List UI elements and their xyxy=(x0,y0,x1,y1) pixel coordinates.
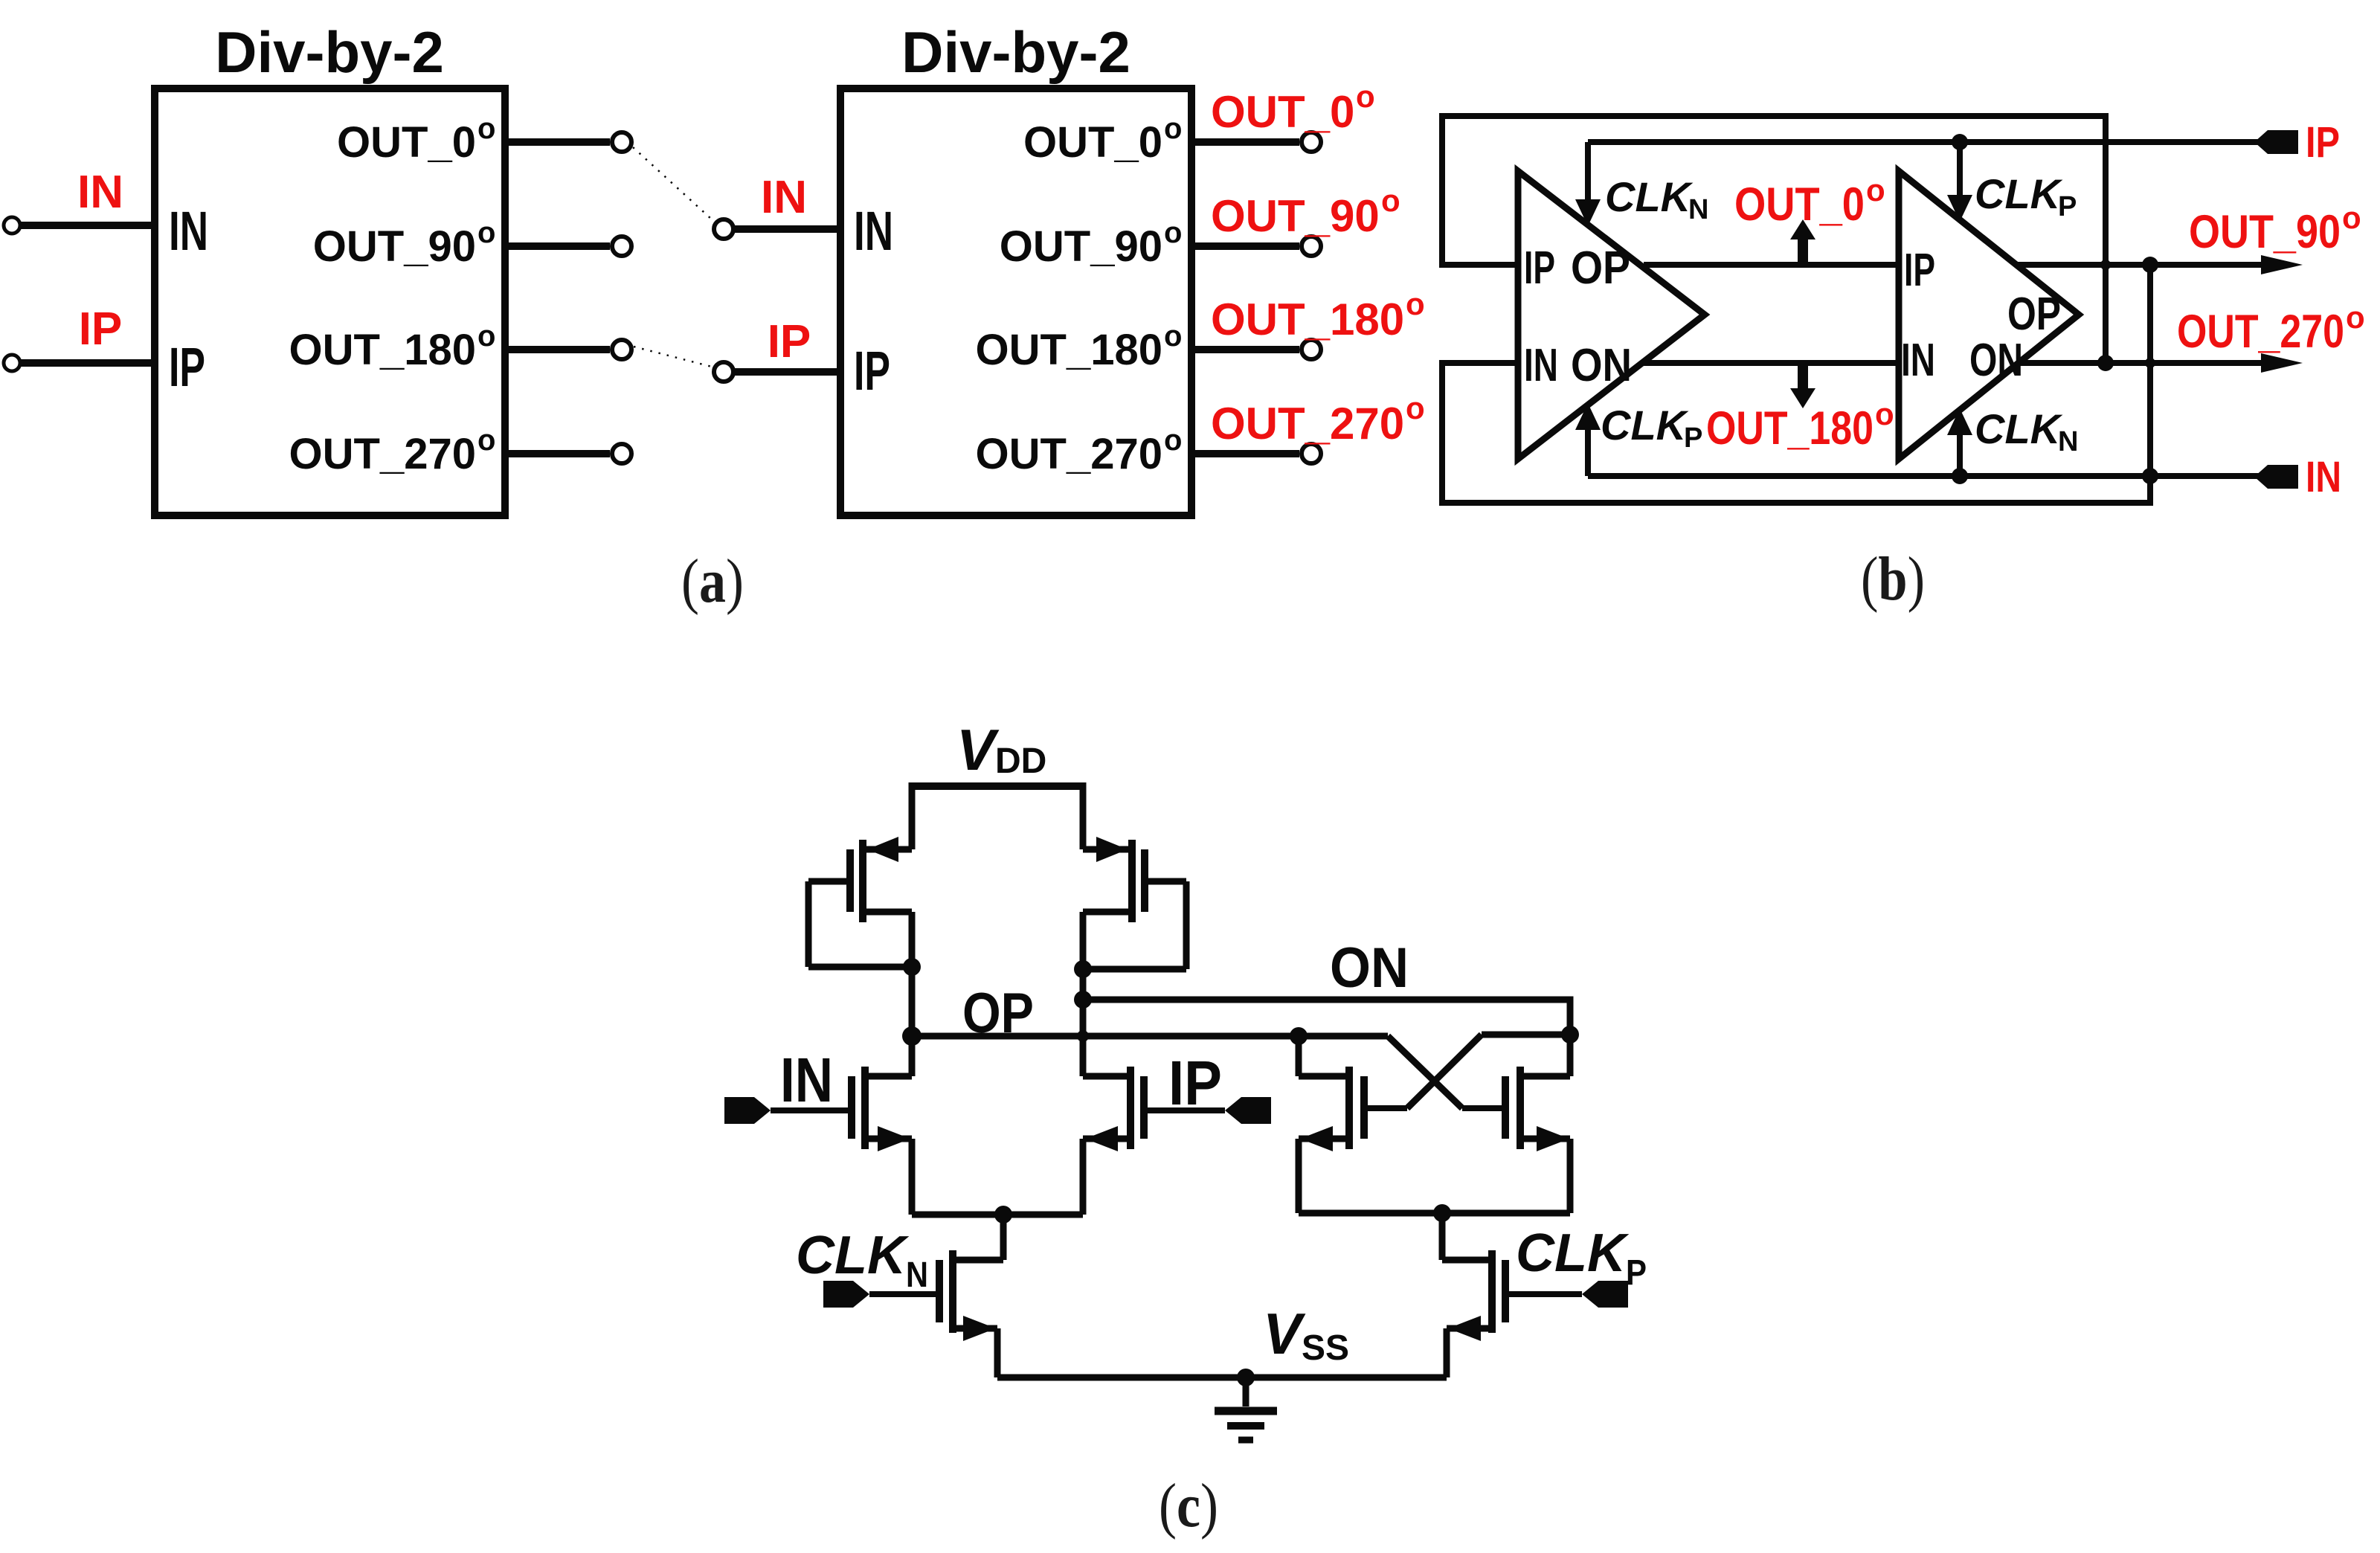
wire VDD rail xyxy=(912,782,1083,790)
svg-text:CLK: CLK xyxy=(1601,402,1689,448)
wire U2 OUT_270 xyxy=(1191,450,1299,457)
junction dot OP at M1 drain xyxy=(902,1026,922,1046)
svg-text:(c): (c) xyxy=(1159,1471,1218,1540)
switch S2 pole circle xyxy=(714,362,733,382)
divider block U2 (Div-by-2 #2) xyxy=(840,89,1191,515)
transistor M5 NMOS cross-coupled left xyxy=(1299,1036,1407,1213)
svg-text:IN: IN xyxy=(1524,340,1558,391)
terminal flag IN (c) xyxy=(724,1097,771,1124)
wire ON2 output (OUT_270) xyxy=(2020,360,2271,366)
svg-text:CLK: CLK xyxy=(1516,1224,1630,1283)
svg-text:ON: ON xyxy=(1571,340,1632,391)
junction dot M2 gate-drain xyxy=(1074,960,1092,978)
block arrow OUT_0 (up) xyxy=(1790,219,1815,265)
svg-text:IP: IP xyxy=(1904,245,1935,296)
svg-text:(a): (a) xyxy=(681,547,744,616)
svg-text:OUT_0: OUT_0 xyxy=(1211,87,1354,137)
svg-text:OUT_0: OUT_0 xyxy=(337,118,476,167)
junction dot OP crossing M2 leg xyxy=(1077,1030,1089,1042)
junction dot feedback line on IN line xyxy=(2142,468,2158,484)
svg-text:o: o xyxy=(1875,396,1894,431)
svg-text:o: o xyxy=(477,424,495,457)
svg-text:OP: OP xyxy=(2007,289,2061,340)
transistor M6 NMOS cross-coupled right xyxy=(1462,1035,1570,1213)
svg-text:o: o xyxy=(477,216,495,249)
wire CLK_N stub into L1 top xyxy=(1585,142,1591,202)
svg-text:o: o xyxy=(477,112,495,145)
svg-text:IN: IN xyxy=(77,167,123,218)
switch S1 dashed throw from OUT_0 to IN pole xyxy=(633,147,712,219)
svg-text:V: V xyxy=(956,717,1000,782)
wire feedback OP2 to IN1 (bottom outer path) xyxy=(1442,265,2150,503)
svg-text:IP: IP xyxy=(854,340,890,402)
svg-text:CLK: CLK xyxy=(1975,405,2063,452)
svg-text:DD: DD xyxy=(995,742,1046,781)
svg-text:V: V xyxy=(1263,1301,1306,1366)
wire VSS rail xyxy=(997,1374,1447,1381)
switch contact circle U1 OUT_180 xyxy=(612,340,631,359)
svg-text:OUT_270: OUT_270 xyxy=(2177,306,2344,358)
svg-text:P: P xyxy=(1626,1253,1647,1293)
wire ON1 to IN2 xyxy=(1644,360,1899,366)
transistor M4 NMOS input IP xyxy=(1083,1067,1225,1215)
junction dot VSS ground tap xyxy=(1237,1369,1255,1386)
transistor M2 PMOS diode-connected right xyxy=(1083,782,1186,1076)
svg-text:P: P xyxy=(2058,191,2077,222)
wire node OP xyxy=(912,1033,1388,1040)
latch L2 triangle xyxy=(1899,171,2079,459)
junction dot crossing ON2/OP2-vert xyxy=(2145,358,2155,368)
junction dot M1 gate-drain xyxy=(903,958,921,976)
svg-text:N: N xyxy=(1688,194,1708,225)
svg-text:OUT_90: OUT_90 xyxy=(2189,206,2341,258)
svg-text:OUT_90: OUT_90 xyxy=(313,222,476,271)
wire U1 OUT_0 xyxy=(505,138,610,146)
transistor M1 PMOS diode-connected left xyxy=(808,782,912,1036)
svg-text:OUT_180: OUT_180 xyxy=(1211,295,1404,344)
junction dot CLK_P tap on IP line xyxy=(1952,134,1968,150)
junction dot ON at M5 drain xyxy=(1561,1026,1579,1044)
terminal circle U2 OUT_180 xyxy=(1302,340,1321,359)
svg-text:IN: IN xyxy=(780,1045,833,1115)
wire U1 OUT_270 xyxy=(505,450,610,457)
terminal arrowhead OUT_270 xyxy=(2261,353,2303,373)
terminal circle IN (left) xyxy=(4,217,20,234)
svg-text:OUT_90: OUT_90 xyxy=(1000,222,1162,271)
svg-text:o: o xyxy=(2346,300,2365,335)
svg-text:OUT_270: OUT_270 xyxy=(976,430,1162,478)
transistor M7 NMOS tail CLK_N xyxy=(869,1215,1003,1377)
switch S2 dashed throw from OUT_180 to IP pole xyxy=(634,347,712,367)
junction dot ON tap at M2 drain xyxy=(1074,991,1092,1009)
switch contact circle U1 OUT_90 xyxy=(612,237,631,256)
svg-text:OUT_90: OUT_90 xyxy=(1211,191,1380,241)
terminal circle IP (left) xyxy=(4,355,20,371)
svg-text:N: N xyxy=(2058,426,2078,457)
wire IN clock line xyxy=(1588,473,2262,479)
svg-text:IP: IP xyxy=(1524,242,1555,294)
svg-text:(b): (b) xyxy=(1861,544,1925,614)
wire IN input to U1 xyxy=(20,222,155,229)
divider block U1 (Div-by-2 #1) xyxy=(155,89,505,515)
svg-text:IP: IP xyxy=(768,316,811,367)
switch contact circle U1 OUT_270 xyxy=(612,444,631,463)
svg-text:o: o xyxy=(1356,79,1375,114)
terminal flag CLK_P (c) xyxy=(1582,1281,1628,1308)
junction dot crossing OP2/ON2-vert xyxy=(2100,260,2111,270)
wire cross-couple diagonal ON to M5 gate xyxy=(1407,1035,1482,1108)
latch L1 triangle xyxy=(1518,171,1705,459)
svg-text:OUT_0: OUT_0 xyxy=(1734,179,1865,231)
svg-text:o: o xyxy=(1406,286,1425,321)
block arrow OUT_180 (down) xyxy=(1790,363,1815,408)
svg-text:IN: IN xyxy=(854,200,893,262)
terminal flag IN (b) xyxy=(2254,465,2298,489)
svg-text:o: o xyxy=(1164,424,1182,457)
wire CLK_P stub into L2 top xyxy=(1957,142,1963,198)
terminal flag IP (c) xyxy=(1225,1097,1271,1124)
svg-text:OUT_270: OUT_270 xyxy=(1211,399,1404,448)
wire S2 pole to U2 IP xyxy=(733,368,840,376)
terminal circle U2 OUT_270 xyxy=(1302,444,1321,463)
svg-text:o: o xyxy=(1381,183,1400,218)
switch S1 pole circle xyxy=(714,219,733,239)
junction dot OP2 feedback tap xyxy=(2142,257,2158,273)
svg-text:IP: IP xyxy=(2306,118,2340,167)
svg-text:o: o xyxy=(1164,112,1182,145)
arrowhead CLK_P into L1 bottom xyxy=(1575,403,1601,430)
wire IP clock line xyxy=(1588,139,2262,145)
junction dot OP at M4 drain xyxy=(1290,1027,1308,1045)
svg-text:P: P xyxy=(1684,422,1702,454)
wire OP1 to IP2 xyxy=(1644,262,1899,268)
arrowhead CLK_N into L1 top xyxy=(1575,199,1601,226)
wire U2 OUT_0 xyxy=(1191,138,1299,146)
svg-text:OUT_180: OUT_180 xyxy=(976,326,1162,374)
svg-text:IN: IN xyxy=(1901,335,1935,386)
svg-text:ON: ON xyxy=(1330,936,1409,1000)
svg-text:ON: ON xyxy=(1969,335,2023,386)
wire CLK_P stub into L1 bottom xyxy=(1585,427,1591,476)
transistor M3 NMOS input IN xyxy=(771,1036,912,1215)
wire node ON xyxy=(1083,1000,1570,1035)
svg-text:IN: IN xyxy=(169,200,208,262)
junction dot right tail node xyxy=(1433,1204,1451,1222)
svg-text:OP: OP xyxy=(962,982,1034,1045)
ground symbol xyxy=(1215,1377,1277,1440)
svg-text:OUT_0: OUT_0 xyxy=(1023,118,1162,167)
svg-text:o: o xyxy=(1866,173,1885,208)
wire common source left pair xyxy=(912,1212,1083,1218)
junction dot ON2 feedback tap xyxy=(2097,355,2114,371)
wire OP2 output (OUT_90) xyxy=(2016,262,2271,268)
svg-text:o: o xyxy=(477,320,495,353)
switch contact circle U1 OUT_0 xyxy=(612,132,631,152)
arrowhead CLK_P into L2 top xyxy=(1947,195,1972,222)
terminal circle U2 OUT_0 xyxy=(1302,132,1321,152)
wire U2 OUT_90 xyxy=(1191,242,1299,250)
junction dot CLK_N tap on IN line xyxy=(1952,468,1968,484)
svg-text:OP: OP xyxy=(1571,242,1630,294)
svg-text:Div-by-2: Div-by-2 xyxy=(901,19,1130,85)
svg-text:o: o xyxy=(1164,216,1182,249)
svg-text:OUT_180: OUT_180 xyxy=(289,326,476,374)
svg-text:CLK: CLK xyxy=(1605,173,1694,220)
wire cross-couple stub ON xyxy=(1482,1032,1570,1038)
wire U1 OUT_90 xyxy=(505,242,610,250)
svg-text:IN: IN xyxy=(2306,453,2341,501)
wire cross-couple diagonal OP to M6 gate xyxy=(1388,1036,1462,1108)
svg-text:Div-by-2: Div-by-2 xyxy=(215,19,444,85)
terminal arrowhead OUT_90 xyxy=(2261,255,2303,274)
svg-text:IP: IP xyxy=(169,336,205,398)
svg-text:CLK: CLK xyxy=(1975,170,2063,217)
wire feedback ON2 to IP1 (top outer path) xyxy=(1442,116,2106,363)
terminal flag IP (b) xyxy=(2254,130,2298,154)
svg-text:IP: IP xyxy=(79,303,123,355)
svg-text:CLK: CLK xyxy=(796,1226,910,1285)
terminal flag CLK_N (c) xyxy=(823,1281,869,1308)
terminal circle U2 OUT_90 xyxy=(1302,237,1321,256)
svg-text:OUT_180: OUT_180 xyxy=(1706,402,1874,454)
svg-text:o: o xyxy=(1164,320,1182,353)
wire IP input to U1 xyxy=(20,359,155,367)
wire U2 OUT_180 xyxy=(1191,346,1299,353)
arrowhead CLK_N into L2 bottom xyxy=(1947,408,1972,435)
wire common source right pair xyxy=(1299,1210,1570,1217)
svg-text:IN: IN xyxy=(761,172,807,223)
svg-text:OUT_270: OUT_270 xyxy=(289,430,476,478)
svg-text:N: N xyxy=(906,1255,928,1295)
svg-text:IP: IP xyxy=(1168,1048,1222,1118)
wire U1 OUT_180 xyxy=(505,346,610,353)
wire CLK_N stub into L2 bottom xyxy=(1957,432,1963,476)
wire S1 pole to U2 IN xyxy=(733,225,840,233)
svg-text:SS: SS xyxy=(1302,1328,1349,1368)
svg-text:o: o xyxy=(1406,390,1425,425)
transistor M8 NMOS tail CLK_P xyxy=(1442,1213,1582,1377)
junction dot left tail node xyxy=(994,1206,1012,1224)
svg-text:o: o xyxy=(2342,200,2361,235)
